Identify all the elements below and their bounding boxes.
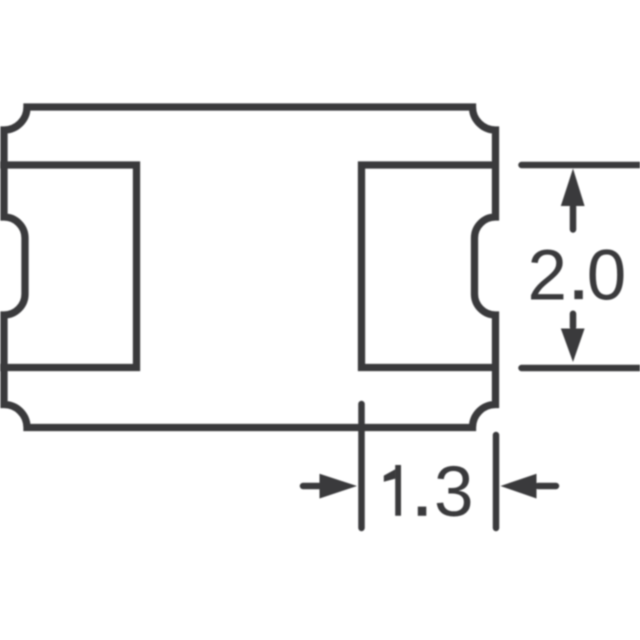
svg-text:2: 2 — [528, 237, 568, 316]
left arrowhead — [320, 474, 358, 499]
down arrowhead — [561, 329, 585, 363]
svg-text:0: 0 — [587, 237, 627, 316]
extension line right (1.3 dim) — [493, 435, 500, 528]
extension line left (1.3 dim) — [358, 404, 365, 528]
component body outline — [4, 107, 496, 428]
left terminal pad — [0, 165, 137, 368]
extension line bottom (2.0 dim) — [522, 365, 640, 372]
up arrow shaft — [570, 207, 577, 230]
dimension text 1.3: digit 1 (custom glyph) — [395, 465, 401, 516]
extension line top (2.0 dim) — [522, 162, 640, 169]
svg-text:3: 3 — [434, 453, 474, 532]
right arrow shaft — [538, 483, 556, 490]
right arrowhead — [501, 474, 537, 499]
up arrowhead — [561, 169, 585, 207]
right terminal pad — [362, 165, 500, 368]
left arrow shaft — [303, 483, 320, 490]
dimension text 1.3: period — [418, 507, 427, 516]
down arrow shaft — [570, 314, 577, 327]
dimension text 2.0: period — [574, 290, 582, 299]
